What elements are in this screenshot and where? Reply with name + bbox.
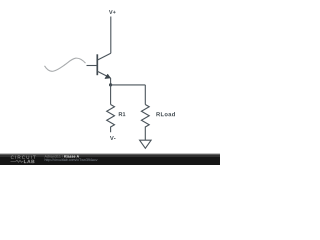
logo LAB text (24, 160, 35, 163)
node V+ label (109, 10, 116, 14)
ground (140, 140, 152, 148)
wire top to RLoad (144, 85, 146, 105)
transistor Q1 emitter arrow (105, 74, 111, 79)
resistor R1 label (119, 112, 126, 116)
junction dot emitter node (109, 83, 112, 86)
resistor R1 (107, 105, 115, 133)
transistor Q1 collector lead (97, 53, 111, 60)
logo CIRCUIT text (11, 156, 36, 159)
resistor RLoad label (156, 112, 175, 116)
sine wave input scribble (45, 58, 86, 71)
credit url text (45, 158, 98, 161)
wire emitter node down to R1 (110, 85, 112, 105)
logo rule + zigzag (11, 160, 24, 162)
wire emitter node to RLoad (111, 84, 146, 86)
wire collector to V+ (110, 17, 112, 54)
transistor Q1 base bar (96, 54, 98, 75)
node V- label (110, 136, 116, 140)
wire emitter down (110, 78, 112, 85)
transistor Q1 emitter lead (97, 71, 110, 78)
transistor Q1 base lead (87, 65, 98, 67)
credit author gray text (45, 155, 63, 158)
credit author bold text (64, 155, 79, 158)
resistor RLoad (141, 105, 149, 141)
